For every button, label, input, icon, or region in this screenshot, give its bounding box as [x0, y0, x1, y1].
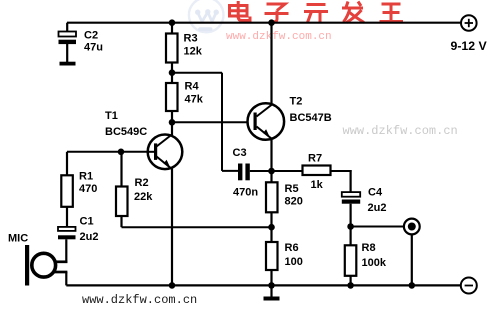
wire base node left to R1 — [67, 151, 121, 153]
svg-text:BC547B: BC547B — [290, 112, 332, 124]
wire R5 to R6 node — [270, 212, 272, 242]
svg-text:R6: R6 — [285, 242, 299, 254]
svg-text:R1: R1 — [79, 171, 93, 183]
resistor R5 — [266, 182, 278, 212]
svg-text:R8: R8 — [362, 242, 376, 254]
svg-text:22k: 22k — [134, 191, 153, 203]
junction R4 / T1 collector / T2 base — [169, 119, 176, 126]
svg-text:47k: 47k — [185, 94, 204, 106]
wire corner down to C4 — [350, 170, 352, 193]
resistor R3 — [166, 34, 178, 63]
output terminal — [404, 219, 420, 235]
wire R4 to T1 collector node — [171, 111, 173, 136]
transistor T2 BC547B — [247, 103, 284, 140]
svg-text:www.dzkfw.com.cn: www.dzkfw.com.cn — [82, 293, 197, 307]
transistor T1 BC549C — [148, 134, 183, 170]
svg-text:2u2: 2u2 — [368, 202, 387, 214]
wire node to R7 — [272, 170, 303, 172]
wire top supply rail — [67, 22, 461, 24]
watermark logo circle — [189, 0, 224, 32]
wire C1 to mic upper stub — [65, 239, 67, 263]
watermark red char 王 — [380, 4, 404, 22]
wire node to R5 — [270, 171, 272, 183]
wire output node to output terminal — [351, 226, 404, 228]
svg-text:www.dzkfw.com.cn: www.dzkfw.com.cn — [226, 31, 332, 43]
svg-text:9-12 V: 9-12 V — [451, 39, 488, 53]
watermark red char 开 — [304, 5, 328, 23]
svg-text:C2: C2 — [84, 30, 98, 42]
svg-text:47u: 47u — [84, 42, 103, 54]
svg-text:C4: C4 — [368, 187, 383, 199]
microphone symbol — [25, 245, 67, 286]
wire bottom rail — [66, 284, 461, 286]
ground — [264, 285, 280, 300]
svg-text:R2: R2 — [135, 177, 149, 189]
wire T1 emitter down to rail — [171, 168, 173, 285]
wire T2 collector up to rail — [270, 23, 272, 105]
junction T1 base / R1 / R2 — [118, 149, 125, 156]
junction R8 / rail — [347, 282, 354, 289]
resistor R2 — [116, 187, 128, 217]
capacitor C2 — [59, 32, 77, 66]
terminal plus — [461, 15, 477, 31]
svg-text:www.dzkfw.com.cn: www.dzkfw.com.cn — [343, 124, 458, 138]
svg-text:12k: 12k — [184, 46, 203, 58]
junction C3 / T2 emitter / R5 / R7 — [268, 168, 275, 175]
svg-text:MIC: MIC — [8, 233, 28, 245]
junction R5/R6/R2 node — [268, 224, 275, 231]
junction top rail / T2 collector — [268, 19, 275, 26]
wire feedback horizontal R3/R4 to x222 — [172, 72, 222, 74]
junction R6 / rail / ground — [268, 282, 275, 289]
svg-text:820: 820 — [285, 196, 303, 208]
junction C4 / R8 / output — [347, 223, 354, 230]
svg-text:R4: R4 — [185, 81, 200, 93]
wire mic lower stub to rail — [65, 272, 67, 285]
svg-text:2u2: 2u2 — [80, 231, 99, 243]
capacitor C3 — [238, 164, 250, 181]
wire R1 to C1 — [66, 207, 68, 228]
svg-text:R7: R7 — [308, 153, 322, 165]
wire R2 feedback right to R5/R6 node — [122, 226, 272, 228]
svg-text:R3: R3 — [184, 33, 198, 45]
svg-text:470n: 470n — [233, 187, 258, 199]
watermark red char 子 — [265, 4, 289, 22]
wire R7 to C4 corner — [331, 170, 352, 172]
terminal minus — [461, 278, 477, 294]
junction R3/R4 node — [169, 69, 176, 76]
svg-text:C3: C3 — [233, 147, 247, 159]
wire feedback to C3 left plate — [222, 170, 239, 172]
watermark red char 电 — [230, 1, 251, 21]
wire rail to R3 — [171, 23, 173, 34]
wire R3 to R4 — [171, 63, 173, 84]
svg-text:BC549C: BC549C — [105, 126, 147, 138]
svg-text:470: 470 — [79, 183, 97, 195]
resistor R7 — [303, 166, 331, 176]
resistor R1 — [61, 175, 73, 207]
svg-text:1k: 1k — [311, 179, 324, 191]
svg-text:T2: T2 — [290, 96, 303, 108]
svg-text:T1: T1 — [105, 110, 118, 122]
wire C2 drop from rail — [66, 23, 68, 32]
wire C3 right plate to node — [250, 170, 272, 172]
watermark red char 发 — [342, 2, 364, 23]
wire R2 bottom down — [120, 216, 122, 227]
wire R6 to rail — [270, 270, 272, 285]
resistor R8 — [345, 245, 357, 275]
capacitor C1 — [58, 227, 76, 239]
svg-text:R5: R5 — [285, 183, 299, 195]
wire T2 emitter down — [270, 138, 272, 171]
wire feedback vertical x222 down — [221, 73, 223, 171]
wire node to R8 — [350, 227, 352, 247]
resistor R4 — [166, 83, 178, 111]
wire down to R1 — [66, 152, 68, 176]
junction output / rail — [409, 282, 416, 289]
resistor R6 — [266, 242, 278, 270]
wire R8 to rail — [350, 276, 352, 286]
svg-text:100: 100 — [285, 256, 303, 268]
wire junction base node down to R2 — [120, 152, 122, 187]
capacitor C4 — [342, 192, 360, 204]
svg-text:100k: 100k — [362, 257, 387, 269]
svg-text:C1: C1 — [80, 216, 94, 228]
wire C4 to output node — [350, 204, 352, 227]
wire T1 base to junction — [121, 151, 149, 153]
wire T1 collector node to T2 base — [172, 121, 248, 123]
wire output terminal down to rail — [411, 234, 413, 285]
junction T1 emitter / rail — [169, 282, 176, 289]
junction top rail / R3 — [169, 19, 176, 26]
